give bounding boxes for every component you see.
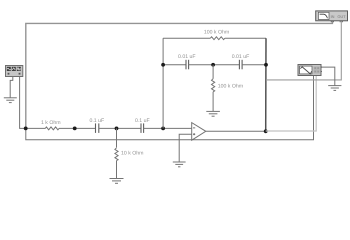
node at op-amp inverting input / feedback tap xyxy=(161,126,165,130)
svg-text:100 k Ohm: 100 k Ohm xyxy=(204,29,229,35)
ground (right of scope) xyxy=(328,86,341,91)
function generator XFG xyxy=(6,66,23,77)
wire function generator ground lead xyxy=(10,76,13,98)
Bode plotter XBP xyxy=(316,11,348,22)
wire 10k branch down xyxy=(116,128,118,147)
node after 1k resistor xyxy=(73,126,77,130)
capacitor 0.01 uF (left) xyxy=(186,60,189,70)
wire function generator output down to input node xyxy=(20,76,26,128)
node input junction xyxy=(24,126,28,130)
wire cap row middle segment xyxy=(189,64,240,66)
ground (below 10k) xyxy=(110,179,124,184)
wire between 1k and first 0.1uF cap xyxy=(59,127,96,129)
capacitor 0.1 uF (second) xyxy=(141,123,144,132)
op-amp U1 xyxy=(192,123,206,141)
wire feedback network left leg xyxy=(162,38,164,128)
resistor 100 k Ohm (feedback top) xyxy=(210,37,224,40)
svg-text:OUT: OUT xyxy=(337,14,346,19)
wire main input row xyxy=(26,127,46,129)
node cap row middle tap xyxy=(211,63,215,67)
wire feedback network right leg xyxy=(265,38,267,131)
wire capacitor row left segment xyxy=(163,64,186,66)
wire op-amp non-inverting input to ground xyxy=(179,134,192,162)
svg-text:0.1 uF: 0.1 uF xyxy=(135,118,150,124)
oscilloscope XSC xyxy=(298,65,322,76)
capacitor 0.01 uF (right) xyxy=(239,60,242,70)
wire feedback top branch (right part) xyxy=(225,37,266,39)
svg-text:0.01 uF: 0.01 uF xyxy=(232,54,250,60)
wire op-amp output xyxy=(206,130,266,132)
wire 10k to ground xyxy=(116,161,118,179)
resistor 10 k Ohm xyxy=(115,148,118,161)
svg-text:100 k Ohm: 100 k Ohm xyxy=(218,84,243,90)
ground (below function generator) xyxy=(4,98,17,103)
capacitor 0.1 uF (first) xyxy=(96,123,99,132)
node op-amp output / feedback junction xyxy=(264,129,268,133)
wire 100k shunt to ground xyxy=(212,92,214,112)
svg-text:0.01 uF: 0.01 uF xyxy=(178,54,196,60)
wire bode-IN loop from input node up and across to Bode plotter IN xyxy=(26,21,333,128)
resistor 100 k Ohm (middle shunt) xyxy=(212,79,215,92)
wire middle tap down to 100k xyxy=(212,65,214,79)
wire cap row right segment xyxy=(242,64,266,66)
ground (below op-amp) xyxy=(173,162,186,167)
node cap row left xyxy=(161,63,165,67)
svg-text:10 k Ohm: 10 k Ohm xyxy=(121,151,144,157)
wire cap2 to op-amp inverting input xyxy=(144,127,192,129)
wire scope ground terminal to ground xyxy=(322,67,335,86)
node cap row right on feedback leg xyxy=(264,63,268,67)
svg-text:IN: IN xyxy=(331,14,335,19)
svg-text:1 k Ohm: 1 k Ohm xyxy=(41,120,61,126)
ground (below middle 100k) xyxy=(206,111,220,116)
wire between caps xyxy=(99,127,141,129)
wire lower rail input to scope channel A xyxy=(26,75,314,139)
wire feedback top branch (left part) xyxy=(163,37,210,39)
node at 10k tap xyxy=(115,126,119,130)
wire scope channel B to output node xyxy=(266,75,317,131)
wire Bode plotter OUT down and left to output leg xyxy=(266,21,341,80)
svg-text:0.1 uF: 0.1 uF xyxy=(89,118,104,124)
resistor 1 k Ohm xyxy=(45,127,59,130)
